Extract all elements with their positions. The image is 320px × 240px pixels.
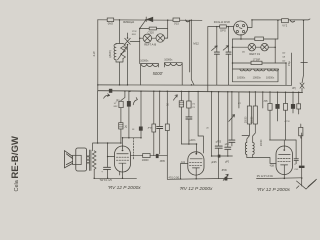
tube V3 envelope xyxy=(276,146,293,175)
svg-text:10000x: 10000x xyxy=(253,77,262,80)
svg-text:JP05: JP05 xyxy=(160,161,166,163)
ground symbol xyxy=(296,179,316,189)
wire power right rail xyxy=(291,53,293,85)
main bus wire xyxy=(98,91,303,93)
wire loop right drop xyxy=(167,20,169,38)
resistor R11 xyxy=(187,101,191,108)
resistor R9 xyxy=(143,154,150,158)
svg-text:(A/W): (A/W) xyxy=(108,50,112,57)
svg-text:8Ω2: 8Ω2 xyxy=(114,106,119,108)
wire grid row stage3 xyxy=(270,140,297,146)
tube V1 cathode xyxy=(119,163,126,178)
wire lamp block top xyxy=(233,38,276,40)
wire R5 row xyxy=(233,62,287,64)
tube V2 grids xyxy=(189,162,202,165)
svg-text:TW 8 1 1/5: TW 8 1 1/5 xyxy=(100,179,113,182)
resistor R5 xyxy=(251,61,262,64)
svg-text:μF0: μF0 xyxy=(225,144,230,146)
svg-text:Ω0: Ω0 xyxy=(282,60,286,62)
resistor R7 xyxy=(119,101,123,107)
wire drop x277.9 xyxy=(275,20,278,39)
capacitor C12 xyxy=(229,140,235,142)
stage3 bottom wire xyxy=(257,177,302,180)
junction blob on bus xyxy=(109,89,112,93)
svg-text:μF0: μF0 xyxy=(225,162,230,164)
wire rail x277.5 xyxy=(277,92,279,121)
wire coil drops xyxy=(140,42,183,85)
wire rectifier input xyxy=(208,26,234,28)
rectifier heater lead xyxy=(240,34,242,39)
wire rail x255.3 xyxy=(253,92,256,142)
arrow stage2 end xyxy=(223,174,228,180)
resistor R3 xyxy=(220,25,227,28)
wire transformer jog xyxy=(93,143,121,151)
svg-text:μF0′1: μF0′1 xyxy=(190,139,197,142)
lamp LA1 xyxy=(143,34,151,42)
transformer core xyxy=(90,150,91,171)
switch arrow C2 xyxy=(223,46,228,51)
svg-text:0Δ: 0Δ xyxy=(282,55,285,58)
svg-text:J-01: J-01 xyxy=(181,162,186,164)
tube V2 top dot xyxy=(195,153,197,155)
svg-text:DCG-Ω DV8: DCG-Ω DV8 xyxy=(214,20,230,24)
heater cap rail C2 xyxy=(227,27,229,85)
winding W2 xyxy=(253,143,255,158)
capacitor C9 xyxy=(104,167,111,169)
svg-text:REF7 A-B: REF7 A-B xyxy=(144,43,156,47)
speaker driver box xyxy=(73,155,82,164)
capacitor C14 xyxy=(294,159,298,161)
lamp LA3 xyxy=(248,44,255,51)
wire rail x298.7 xyxy=(299,92,302,138)
svg-text:REF7 19: REF7 19 xyxy=(249,52,260,56)
border return wire xyxy=(98,84,292,86)
wire rail x181.4 xyxy=(180,92,182,144)
svg-text:μF05: μF05 xyxy=(211,162,217,164)
resistor R12 xyxy=(179,101,183,107)
capacitor C6 xyxy=(186,117,192,119)
svg-text:8Ω1: 8Ω1 xyxy=(132,34,137,36)
resistor R6 xyxy=(255,37,264,41)
tube V1 anode xyxy=(117,146,128,154)
tube V1 grid lead xyxy=(108,156,115,158)
wire rail x218.6 xyxy=(218,92,220,178)
capacitor C8 electrolytic xyxy=(299,166,305,168)
svg-text:μF: μF xyxy=(294,164,297,166)
jack J1 xyxy=(186,20,190,22)
svg-text:20000: 20000 xyxy=(251,116,253,123)
wire diode junction drop xyxy=(140,20,146,29)
tube V2 envelope xyxy=(188,152,204,175)
svg-text:J′05: J′05 xyxy=(263,101,268,103)
switch X mains xyxy=(300,83,304,88)
svg-text:JF05: JF05 xyxy=(147,128,153,130)
wire R9 right xyxy=(150,155,156,157)
svg-text:Ω0: Ω0 xyxy=(282,52,286,54)
svg-text:0M3Ω/μΩ: 0M3Ω/μΩ xyxy=(123,20,134,24)
bead JP05 xyxy=(156,154,159,158)
wire anode row stage1 xyxy=(131,155,143,157)
bead cap x129 xyxy=(127,101,131,107)
wire rail x301.7 xyxy=(301,133,303,186)
hatch R8 xyxy=(119,125,123,127)
rectifier V4 pins xyxy=(236,24,245,32)
bead cap x293 xyxy=(291,104,295,109)
wire rail x167.3 xyxy=(166,92,168,156)
wire rail x227.8 xyxy=(227,92,229,156)
svg-text:VY2: VY2 xyxy=(282,24,287,28)
svg-text:4′01 Ω 0Ω: 4′01 Ω 0Ω xyxy=(169,176,180,179)
svg-text:′RV 12 P 2000x: ′RV 12 P 2000x xyxy=(257,187,291,193)
potentiometer P1 xyxy=(118,44,127,60)
tube V3 grids xyxy=(278,159,291,162)
wire rail x270 xyxy=(269,92,271,140)
wire top-left horizontal xyxy=(98,19,202,22)
tube V1 grids xyxy=(116,157,128,160)
speaker coil marks xyxy=(87,156,89,164)
svg-text:JP): JP) xyxy=(292,86,296,90)
tube V2 grid lead xyxy=(181,164,188,179)
wire R5 right rail xyxy=(285,63,287,85)
resistor Rc xyxy=(165,124,169,131)
lamp LA4 xyxy=(261,44,268,51)
choke line xyxy=(233,68,279,70)
tube V3 cathode xyxy=(281,165,288,178)
resistor R4 xyxy=(282,19,289,23)
wire power left rail xyxy=(207,27,209,92)
wire R22 row xyxy=(140,28,168,30)
winding W1 xyxy=(245,143,246,158)
svg-text:10000x: 10000x xyxy=(140,60,149,63)
wire rail x198.1 xyxy=(198,92,203,153)
resistor R19 xyxy=(297,104,301,109)
wire mid row stage2 xyxy=(212,155,233,157)
wire lamp row xyxy=(233,46,276,48)
wire lamp row xyxy=(140,37,168,39)
svg-text:+: + xyxy=(101,170,103,174)
svg-text:1/7: 1/7 xyxy=(114,103,118,105)
resistor R1 xyxy=(107,18,114,22)
resistor R20 xyxy=(299,127,303,135)
arrow under bus mid xyxy=(173,95,177,100)
curl arrow x134 xyxy=(133,98,137,105)
choke CH1 xyxy=(240,69,251,71)
AVC dashed line xyxy=(133,138,135,160)
wire rail R7 R8 xyxy=(121,92,125,143)
svg-text:4Ω8: 4Ω8 xyxy=(270,165,275,167)
wire rail x285.5 xyxy=(285,92,287,140)
svg-text:μF05: μF05 xyxy=(216,141,222,143)
tube V3 top dot xyxy=(283,149,285,151)
speaker cone xyxy=(65,151,73,168)
tube V2 anode xyxy=(190,152,202,159)
svg-text:10000: 10000 xyxy=(142,159,149,162)
wire lamp rails xyxy=(233,39,276,82)
choke CH3 xyxy=(267,69,278,71)
wire rail x249.4 xyxy=(242,92,249,142)
svg-text:10000x: 10000x xyxy=(266,77,275,80)
rectifier tube V4 xyxy=(234,21,248,35)
hatch R12 xyxy=(179,103,183,105)
wire lamp loop left xyxy=(130,41,140,43)
bead stage2 xyxy=(218,155,221,158)
wire rail x238.9 xyxy=(238,92,240,108)
mains drop xyxy=(301,20,308,62)
wire choke loop bottom xyxy=(233,69,279,82)
wire R9 row right xyxy=(159,155,168,157)
svg-text:0′1: 0′1 xyxy=(192,104,196,106)
curved arrow under bus xyxy=(104,94,110,99)
wire rail x159.7 xyxy=(159,92,161,154)
svg-text:0M3: 0M3 xyxy=(108,22,114,26)
wire tube2 top lead xyxy=(196,144,198,152)
stage2 bottom wire xyxy=(167,177,232,180)
resistor Rb xyxy=(152,124,156,132)
resistor R23 xyxy=(268,104,272,111)
switch S1 dots xyxy=(127,38,129,45)
switch arrow C1 xyxy=(212,46,218,51)
tube V3 anode xyxy=(279,146,291,154)
antenna lead xyxy=(190,20,194,85)
wire stage3 grid link xyxy=(247,158,276,164)
svg-text:0′15: 0′15 xyxy=(174,21,179,25)
jack J2 xyxy=(290,20,294,22)
svg-text:20000: 20000 xyxy=(245,116,247,123)
choke CH2 xyxy=(254,69,265,71)
svg-text:20000: 20000 xyxy=(261,139,263,146)
capacitor C2 xyxy=(226,52,231,54)
heater cap rail C1 xyxy=(216,27,218,85)
svg-text:20: 20 xyxy=(206,128,209,130)
wire rail x296.1 xyxy=(295,140,297,163)
wire rail x262.8 xyxy=(262,92,264,108)
transformer winding xyxy=(92,151,96,170)
svg-text:Cela RE-B/GW: Cela RE-B/GW xyxy=(10,135,21,191)
svg-text:JF: JF xyxy=(132,129,135,131)
wire bead rail x128.9 xyxy=(128,92,130,138)
wire loop left side xyxy=(139,29,141,42)
capacitor C5 xyxy=(157,126,163,128)
svg-text:RV 12 P 13 0Ω: RV 12 P 13 0Ω xyxy=(257,175,273,178)
svg-text:M12: M12 xyxy=(193,41,199,45)
wire grid row stage2 xyxy=(181,143,196,145)
wire grid row stage1 xyxy=(123,137,142,139)
coil L0 winding xyxy=(114,44,116,60)
wire left rail xyxy=(97,20,99,143)
svg-text:5000′: 5000′ xyxy=(153,71,163,76)
svg-text:1TW: 1TW xyxy=(132,31,138,33)
svg-text:4-W: 4-W xyxy=(92,51,96,56)
bead cap x277 xyxy=(275,104,279,109)
svg-text:0′0μ: 0′0μ xyxy=(288,61,291,66)
svg-text:′RV 12 P 2000x: ′RV 12 P 2000x xyxy=(108,185,142,191)
wire rail x231.9 xyxy=(231,92,233,146)
svg-text:0′1: 0′1 xyxy=(192,107,196,109)
resistor R2 xyxy=(173,18,180,21)
wire rail x211.6 xyxy=(211,92,213,156)
bead stage2 wire xyxy=(225,177,228,181)
resistor R14 xyxy=(247,106,251,124)
mains lower lead xyxy=(302,63,304,83)
tube V1 envelope xyxy=(115,146,131,172)
capacitor C11 xyxy=(225,147,231,149)
capacitor C10 xyxy=(215,146,222,148)
wire tube1 top lead xyxy=(122,138,124,146)
arrow x231.9 xyxy=(229,115,235,122)
svg-text:10000x: 10000x xyxy=(237,77,246,80)
svg-text:JP06: JP06 xyxy=(221,170,227,172)
wire rail x167.8 down xyxy=(166,156,168,180)
tube V1 top dot xyxy=(122,149,124,151)
diode D1 bar xyxy=(145,17,147,22)
wire rectifier output xyxy=(248,20,253,28)
wire upper-right xyxy=(252,19,310,20)
svg-text:0Δ: 0Δ xyxy=(242,51,245,54)
wire rail x153.8 xyxy=(153,92,155,156)
resistor R17 xyxy=(283,104,287,111)
transformer bottom lead xyxy=(93,169,95,178)
resistor R15 xyxy=(253,106,257,124)
wire mains to bus xyxy=(301,88,303,92)
stage1 bottom wire xyxy=(94,177,136,179)
svg-text:DPG: DPG xyxy=(220,28,226,32)
speaker frame xyxy=(76,148,87,171)
wire pot column top xyxy=(116,20,123,44)
svg-text:0′2: 0′2 xyxy=(238,103,242,105)
coil L2 xyxy=(164,63,182,66)
capacitor C1 xyxy=(214,52,219,54)
resistor R8 xyxy=(119,123,123,129)
bead cap x141 xyxy=(139,127,143,131)
svg-text:0′01: 0′01 xyxy=(294,169,299,171)
wire rail x188.9 xyxy=(188,92,190,144)
svg-text:JQ: JQ xyxy=(124,127,127,129)
svg-text:4 TW: 4 TW xyxy=(284,121,290,123)
wire rail x141 xyxy=(140,92,142,138)
svg-text:20: 20 xyxy=(166,105,169,107)
tube V2 cathode xyxy=(192,168,199,179)
switch S1 xyxy=(125,33,131,85)
lamp LA2 xyxy=(156,34,164,42)
svg-text:′RV 12 P 2000x: ′RV 12 P 2000x xyxy=(180,186,214,192)
resistor R22 xyxy=(149,27,156,30)
svg-text:10000x: 10000x xyxy=(164,59,173,62)
wire rail x293 xyxy=(292,92,294,113)
diode D1 xyxy=(147,17,153,21)
coil L1 xyxy=(141,64,159,67)
wire cap rail x107.6 xyxy=(107,143,109,178)
wire pot column bottom xyxy=(116,59,123,85)
